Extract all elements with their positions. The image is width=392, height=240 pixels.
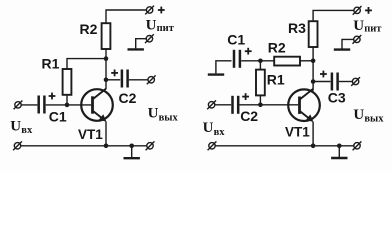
wire input to C2 right: [215, 104, 231, 106]
wire to supply ground right: [342, 39, 354, 48]
svg-text:R1: R1: [267, 71, 285, 87]
wire bottom rail right: [215, 145, 354, 147]
terminal bottom left input: [13, 141, 22, 150]
svg-text:U: U: [148, 106, 159, 122]
wire R3 bottom: [312, 47, 314, 61]
ground bottom right: [331, 157, 347, 159]
wire C3 left segment: [313, 81, 330, 83]
svg-text:вых: вых: [364, 114, 384, 125]
wire collector line right: [312, 61, 314, 91]
node ground rail right: [337, 144, 342, 149]
node A right: [258, 59, 263, 64]
plus sign C1: [49, 93, 56, 100]
svg-text:C1: C1: [227, 32, 245, 48]
wire C1 to node A: [241, 60, 274, 62]
node ground rail left: [129, 144, 134, 149]
terminal bottom right right-circuit: [353, 141, 362, 150]
resistor R2 right: [274, 57, 300, 66]
label Uvx right: [203, 120, 226, 138]
plus sign C2 right: [242, 93, 249, 100]
label Uvyx right: [353, 107, 384, 125]
transistor VT1 left: [81, 89, 113, 122]
label C1: [49, 108, 67, 124]
capacitor C1 right: [234, 50, 240, 68]
svg-text:R2: R2: [80, 21, 98, 37]
wire ground stub left: [131, 146, 133, 157]
plus sign supply right: [365, 7, 372, 14]
terminal ground supply left: [145, 34, 154, 43]
svg-text:вх: вх: [21, 125, 33, 136]
terminal bottom left right-circuit: [208, 141, 217, 150]
label R3: [288, 20, 306, 36]
node R1 feedback tap: [104, 56, 109, 61]
wire R1 bottom right: [259, 95, 261, 104]
wire C2 to output: [129, 79, 148, 81]
terminal +Upit right: [353, 6, 362, 15]
wire ground stub right: [338, 146, 340, 157]
wire node A to R1: [259, 61, 261, 70]
label Uvyx left: [148, 106, 179, 124]
capacitor C2: [122, 70, 128, 88]
plus sign C2: [111, 70, 118, 77]
node C3 tap: [311, 79, 316, 84]
label Uvx left: [10, 118, 33, 136]
label C3: [328, 90, 346, 106]
svg-text:вх: вх: [214, 127, 226, 138]
resistor R1: [63, 69, 72, 95]
terminal +Upit left: [145, 6, 154, 15]
label VT1 left: [78, 127, 103, 142]
wire R1 bottom: [66, 95, 68, 105]
capacitor C3: [332, 73, 338, 91]
svg-text:U: U: [353, 18, 364, 34]
svg-text:пит: пит: [364, 23, 382, 34]
ground supply right: [334, 48, 350, 50]
plus sign C3: [320, 71, 327, 78]
svg-text:R2: R2: [268, 39, 286, 55]
svg-text:VT1: VT1: [285, 124, 310, 139]
label C1 right: [227, 32, 245, 48]
node B right: [311, 59, 316, 64]
label Upit right: [353, 18, 382, 34]
svg-text:R1: R1: [42, 55, 60, 71]
svg-text:вых: вых: [159, 112, 179, 123]
capacitor C2 right: [233, 96, 239, 114]
terminal ground supply right: [353, 35, 362, 44]
transistor VT1 right: [288, 89, 320, 122]
label C2 right: [240, 108, 258, 124]
svg-text:U: U: [353, 107, 364, 123]
svg-text:пит: пит: [157, 23, 175, 34]
svg-text:C2: C2: [119, 90, 137, 106]
terminal input right: [207, 100, 216, 109]
wire input to C1: [21, 104, 37, 106]
svg-text:C2: C2: [240, 108, 258, 124]
label R1 right: [267, 71, 285, 87]
svg-text:C1: C1: [49, 108, 67, 124]
ground bottom left: [124, 157, 140, 159]
plus sign C1 right: [245, 48, 252, 55]
wire supply top right: [313, 10, 354, 21]
wire emitter left: [105, 122, 107, 146]
terminal output right: [351, 77, 360, 86]
capacitor C1: [39, 96, 45, 114]
label R2 right: [268, 39, 286, 55]
svg-text:VT1: VT1: [78, 127, 103, 142]
wire supply top left: [106, 10, 146, 23]
node base junction left: [65, 103, 70, 108]
svg-text:U: U: [146, 18, 157, 34]
label C2: [119, 90, 137, 106]
wire collector line left: [105, 49, 107, 89]
resistor R1 right: [256, 70, 265, 96]
wire C2 left segment: [106, 79, 120, 81]
resistor R3: [309, 21, 318, 47]
node C2 tap: [104, 78, 109, 83]
label R1: [42, 55, 60, 71]
wire bottom rail left: [21, 145, 147, 147]
plus sign supply left: [158, 7, 165, 14]
wire to supply ground left: [136, 39, 146, 49]
wire C3 to output: [339, 81, 353, 83]
wire feedback R1 top: [67, 59, 106, 69]
node emitter rail left: [104, 144, 109, 149]
svg-text:C3: C3: [328, 90, 346, 106]
label R2: [80, 21, 98, 37]
ground input side right: [208, 73, 224, 75]
terminal input left: [14, 101, 23, 110]
svg-text:U: U: [10, 118, 21, 134]
wire ground to C1 right: [216, 61, 232, 74]
svg-text:U: U: [203, 120, 214, 136]
label VT1 right: [285, 124, 310, 139]
wire emitter right: [312, 122, 314, 146]
wire base left: [46, 104, 91, 106]
wire R2 to node B: [300, 60, 313, 62]
node base junction right: [258, 103, 263, 108]
svg-text:R3: R3: [288, 20, 306, 36]
terminal output left: [147, 75, 156, 84]
terminal bottom right left-circuit: [146, 141, 155, 150]
label Upit left: [146, 18, 175, 34]
node emitter rail right: [311, 144, 316, 149]
ground supply left: [128, 48, 144, 50]
wire base right: [240, 104, 299, 106]
resistor R2: [102, 23, 111, 49]
